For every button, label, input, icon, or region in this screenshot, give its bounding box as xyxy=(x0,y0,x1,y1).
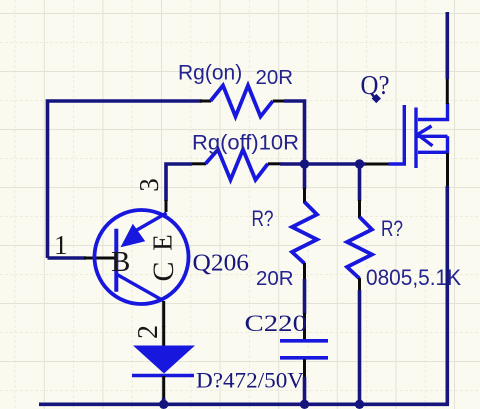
svg-text:C: C xyxy=(147,261,180,281)
wire res1 to cap xyxy=(303,279,307,314)
svg-text:1: 1 xyxy=(54,230,68,260)
wire top-left loop xyxy=(48,101,203,258)
transistor Q206 base bar xyxy=(114,229,118,292)
svg-text:3: 3 xyxy=(134,178,164,192)
pin diode cathode (black) xyxy=(162,376,165,399)
wire node horizontal xyxy=(280,162,366,166)
transistor Q206 collector line xyxy=(117,275,163,301)
pin drain Q? (black) xyxy=(446,78,449,104)
pin base Q206 (black) xyxy=(84,257,116,260)
diode D? triangle xyxy=(133,346,195,374)
pin R2 bottom (black) xyxy=(358,278,361,291)
mosfet Q? drain stub xyxy=(418,103,448,120)
pin R2 top (black) xyxy=(358,200,361,218)
svg-text:E: E xyxy=(148,234,178,251)
svg-text:R?: R? xyxy=(252,206,274,231)
wire base horizontal xyxy=(48,256,87,260)
pin cap top (black) xyxy=(303,313,306,339)
wire bottom rail xyxy=(39,402,449,406)
mosfet Q? body stub xyxy=(417,135,448,138)
junction node A xyxy=(300,159,309,168)
svg-text:20R: 20R xyxy=(256,66,294,89)
wire source down right side xyxy=(445,186,449,404)
svg-text:0805,5.1K: 0805,5.1K xyxy=(366,265,461,290)
junction node B xyxy=(355,159,364,168)
wire diode to bottom xyxy=(162,398,166,404)
pin source Q? (black) xyxy=(446,153,449,187)
wire res2 to bottom xyxy=(358,290,362,404)
svg-text:2: 2 xyxy=(133,325,164,339)
wire Rg(off) left corner down xyxy=(166,164,192,201)
mosfet Q? source stub xyxy=(418,136,448,152)
pin R? top (black) xyxy=(303,188,306,203)
wire Rg(on) right corner down xyxy=(284,101,305,164)
svg-text:B: B xyxy=(111,246,130,278)
pin R1 bottom (black) xyxy=(303,263,306,280)
resistor R2 zigzag vertical xyxy=(347,217,372,279)
pin diode anode (black) xyxy=(162,326,165,346)
junction bottom res2 xyxy=(355,400,364,409)
junction bottom cap xyxy=(300,400,309,409)
pin Rg(on) left (black) xyxy=(200,100,211,103)
pin 2 Q206 (black) xyxy=(162,301,165,327)
diode D? cathode bar xyxy=(132,374,194,378)
transistor Q206 emitter line xyxy=(136,213,167,231)
svg-text:C220: C220 xyxy=(245,311,308,336)
resistor R1 zigzag vertical xyxy=(292,202,317,264)
wire res2 top lead xyxy=(358,164,362,201)
junction bottom diode xyxy=(159,400,168,409)
mosfet Q? gate lead xyxy=(389,105,405,164)
pin Rg(off) left (black) xyxy=(192,162,206,165)
svg-text:Rg(off)10R: Rg(off)10R xyxy=(192,132,299,155)
svg-text:20R: 20R xyxy=(256,267,294,290)
pin gate Q? (black) xyxy=(366,163,390,166)
pin Rg(on) right (black) xyxy=(273,100,285,103)
wire cap to bottom xyxy=(303,377,307,404)
svg-text:Rg(on): Rg(on) xyxy=(178,62,242,85)
transistor Q206 circle xyxy=(95,210,189,304)
resistor Rg(off) zigzag xyxy=(206,150,268,180)
svg-text:Q206: Q206 xyxy=(193,250,250,277)
pin Rg(off) right (black) xyxy=(268,162,281,165)
transistor Q206 emitter arrow xyxy=(121,224,146,248)
svg-text:R?: R? xyxy=(381,216,403,241)
pin 3 Q206 (black) xyxy=(165,200,168,212)
capacitor C220 plates xyxy=(280,341,328,358)
svg-text:D?472/50V: D?472/50V xyxy=(196,368,304,393)
resistor Rg(on) zigzag xyxy=(211,86,273,117)
mosfet Q? channel bar xyxy=(414,108,417,169)
mosfet Q? body arrow xyxy=(418,126,433,146)
wire res1 top lead xyxy=(303,164,307,189)
marker diamond xyxy=(372,94,381,103)
pin cap bottom (black) xyxy=(303,359,306,378)
wire drain up xyxy=(445,12,449,79)
